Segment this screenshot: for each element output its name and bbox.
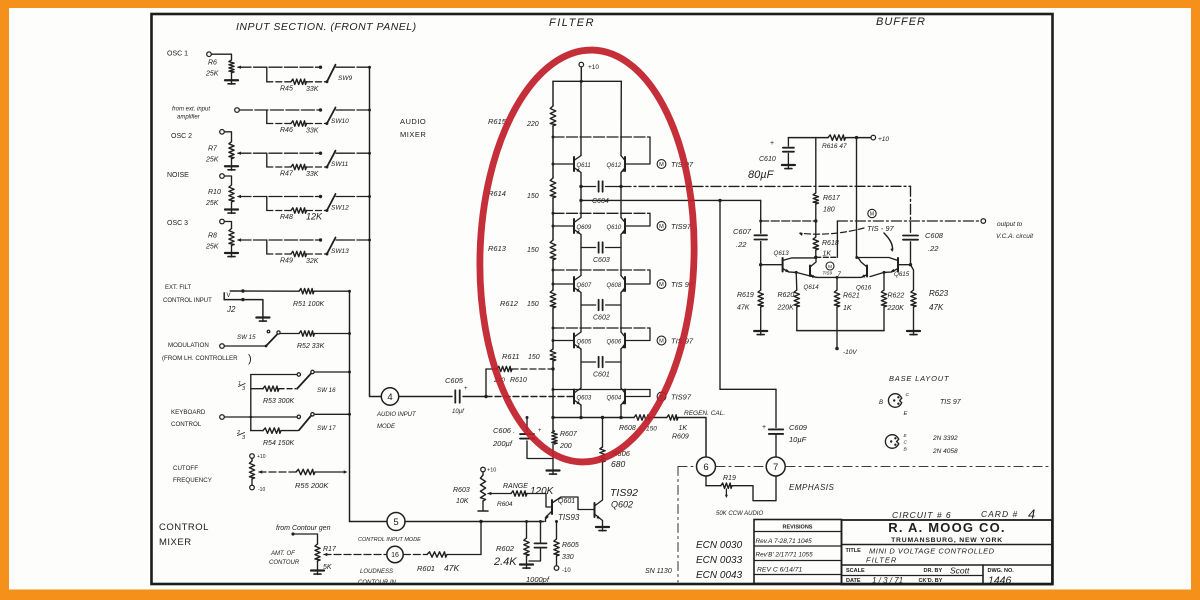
svg-text:DWG. NO.: DWG. NO. — [988, 568, 1015, 574]
svg-text:R623: R623 — [929, 289, 949, 298]
svg-text:R614: R614 — [488, 189, 506, 198]
node 6 — [697, 457, 716, 476]
schematic frame border — [152, 14, 1053, 584]
pot wiper arrow — [259, 470, 263, 473]
ground — [520, 563, 533, 565]
pot wiper arrow R17 — [324, 553, 328, 556]
svg-text:R605: R605 — [562, 542, 579, 549]
svg-text:10µf: 10µf — [452, 409, 465, 415]
svg-text:-10: -10 — [258, 487, 265, 493]
svg-text:+10: +10 — [257, 454, 266, 460]
svg-text:R17: R17 — [323, 546, 337, 553]
wire +10 to top rail — [580, 67, 582, 81]
svg-text:CK'D. BY: CK'D. BY — [919, 578, 943, 584]
wire ladder right column stage 2-3 — [620, 235, 622, 276]
svg-text:OSC 3: OSC 3 — [167, 220, 188, 227]
wire ladder right column stage 3-4 — [620, 293, 622, 333]
svg-text:EMPHASIS: EMPHASIS — [789, 483, 835, 492]
base tap wire stage 4 — [553, 327, 650, 329]
svg-text:R616 47: R616 47 — [822, 143, 847, 150]
svg-text:CIRCUIT # 6: CIRCUIT # 6 — [892, 510, 952, 520]
svg-text:MIXER: MIXER — [159, 537, 192, 548]
wire ladder left column stage 2-3 — [580, 235, 582, 276]
resistor R623 47K — [911, 265, 914, 290]
svg-text:R621: R621 — [843, 293, 860, 300]
svg-text:.22: .22 — [928, 244, 939, 253]
Q616 emitter to joint emitter line — [860, 275, 867, 278]
resistor R49 32K — [267, 253, 291, 255]
wire ladder output A to buffer — [621, 185, 911, 187]
wire control bus — [349, 291, 351, 521]
resistor R51 100K — [299, 289, 314, 294]
wire keyboard input — [224, 416, 297, 418]
svg-text:1000pf: 1000pf — [526, 575, 550, 584]
terminal +10 ladder top — [579, 62, 584, 67]
svg-text:.22: .22 — [736, 240, 747, 249]
svg-text:R617: R617 — [823, 195, 841, 202]
base wire left stage 2 — [553, 225, 574, 227]
ground — [256, 316, 269, 318]
transistor Q613 — [782, 258, 784, 272]
resistor R47 33K — [267, 166, 291, 168]
svg-text:M: M — [659, 162, 664, 168]
svg-text:R51 100K: R51 100K — [293, 301, 324, 308]
svg-text:R607: R607 — [560, 431, 578, 438]
svg-text:50K CCW AUDIO: 50K CCW AUDIO — [716, 511, 763, 517]
wire R604 to Q601 base — [527, 494, 552, 508]
resistor R55 200K — [296, 469, 315, 474]
input terminal NOISE — [220, 174, 225, 179]
svg-text:150: 150 — [527, 193, 539, 200]
svg-text:R45: R45 — [280, 85, 293, 92]
svg-text:R610: R610 — [510, 377, 527, 384]
transistor Q606 — [624, 334, 626, 348]
svg-text:C610: C610 — [759, 156, 776, 163]
resistor R616 47 — [828, 135, 846, 140]
wire audio bus — [369, 67, 371, 394]
wire jack sleeve to ground — [224, 300, 263, 317]
input terminal OSC 3 — [220, 219, 225, 224]
input terminal OSC 1 — [207, 52, 212, 57]
resistor R615 220 — [550, 106, 556, 126]
svg-text:R620: R620 — [778, 292, 795, 299]
svg-text:Q602: Q602 — [611, 500, 633, 510]
svg-text:R602: R602 — [496, 544, 515, 553]
wire terminal to pot — [211, 54, 231, 60]
svg-text:C: C — [904, 440, 908, 446]
pot R603 wiper arrow — [488, 492, 492, 495]
svg-text:+: + — [762, 424, 766, 431]
svg-text:BASE LAYOUT: BASE LAYOUT — [889, 374, 950, 383]
wire SW17 to control bus — [314, 413, 349, 415]
svg-text:C608: C608 — [925, 231, 944, 240]
chain wire — [552, 198, 554, 240]
revisions line — [754, 545, 842, 547]
wire wiper to switch contact — [238, 239, 321, 241]
svg-text:C603: C603 — [593, 257, 610, 264]
Q602 collector wire — [595, 462, 603, 506]
svg-text:-10V: -10V — [843, 349, 857, 356]
svg-text:OSC 1: OSC 1 — [167, 51, 188, 58]
Q601 emitter — [546, 511, 553, 522]
capacitor 1000pf — [540, 522, 542, 543]
wire switch to audio bus — [342, 196, 369, 198]
svg-text:TIS97: TIS97 — [671, 222, 692, 231]
chain wire — [552, 126, 554, 178]
svg-text:INPUT SECTION. (FRONT PANEL: INPUT SECTION. (FRONT PANEL) — [236, 21, 417, 33]
svg-text:B: B — [879, 400, 883, 406]
base wire left stage 3 — [553, 283, 574, 285]
crease dash-dot line horizontal — [678, 466, 696, 468]
svg-text:180: 180 — [823, 207, 835, 214]
label circled M TIS97 buffer — [826, 262, 834, 270]
svg-text:R10: R10 — [208, 189, 221, 196]
svg-text:CONTROL: CONTROL — [159, 522, 209, 533]
wire input to Q603 base — [486, 396, 574, 398]
wire to SW15 — [224, 345, 265, 347]
revisions box — [754, 520, 842, 584]
wire node4 to C605 — [399, 396, 452, 398]
ground — [311, 569, 324, 571]
resistor R611 150 — [550, 349, 556, 361]
svg-text:Q613: Q613 — [774, 250, 790, 257]
wire terminal to pot — [224, 132, 231, 142]
terminal output — [981, 219, 986, 224]
svg-text:CONTROL INPUT MODE: CONTROL INPUT MODE — [358, 537, 421, 543]
svg-text:R. A. MOOG CO.: R. A. MOOG CO. — [888, 520, 1005, 535]
base tap wire stage 2 — [553, 212, 650, 214]
svg-text:SW10: SW10 — [331, 118, 349, 125]
svg-text:R611: R611 — [502, 352, 519, 361]
capacitor C605 10uf — [454, 390, 456, 402]
resistor R608 150 — [634, 415, 650, 420]
wire R601 to control line — [447, 554, 481, 556]
resistor R619 47K — [760, 265, 762, 290]
input terminal keyboard control — [220, 415, 225, 420]
resistor R52 33K — [280, 333, 299, 335]
svg-text:DR. BY: DR. BY — [924, 568, 943, 574]
wire R606 to ladder emitter rail — [602, 418, 604, 448]
svg-text:FILTER: FILTER — [549, 17, 595, 29]
potentiometer R17 5K — [315, 544, 320, 561]
svg-text:R48: R48 — [280, 214, 293, 221]
wire emitter rail — [553, 417, 634, 419]
transistor Q608 — [624, 277, 626, 291]
svg-text:RANGE: RANGE — [503, 483, 528, 490]
svg-text:+10: +10 — [878, 136, 889, 143]
svg-text:E: E — [904, 411, 908, 417]
ground R623 — [907, 330, 920, 332]
svg-text:Q601: Q601 — [558, 498, 575, 505]
svg-text:TITLE: TITLE — [846, 548, 862, 554]
svg-text:Q612: Q612 — [607, 163, 622, 169]
svg-text:M: M — [659, 282, 664, 288]
svg-text:LOUDNESS: LOUDNESS — [360, 569, 393, 575]
wire terminal to pot — [224, 222, 231, 229]
wire to ground — [552, 444, 554, 470]
chain wire — [552, 260, 554, 290]
svg-text:MINI D VOLTAGE CONTROLLED: MINI D VOLTAGE CONTROLLED — [869, 547, 995, 556]
svg-text:1 / 3 / 71: 1 / 3 / 71 — [872, 576, 903, 585]
wire ladder right column stage 1-2 — [620, 173, 622, 218]
svg-text:Q614: Q614 — [804, 284, 820, 291]
svg-text:TRUMANSBURG, NEW YORK: TRUMANSBURG, NEW YORK — [891, 537, 1003, 544]
wire branch down — [266, 197, 268, 211]
node 5 control input mode — [387, 513, 405, 531]
svg-text:M: M — [659, 339, 664, 345]
svg-text:4: 4 — [387, 392, 392, 403]
svg-text:NOISE: NOISE — [167, 172, 189, 179]
transistor Q615 — [897, 258, 899, 272]
svg-text:AMT. OF: AMT. OF — [270, 551, 295, 557]
resistor R609 1K — [667, 415, 678, 420]
svg-text:R53 300K: R53 300K — [263, 398, 294, 405]
potentiometer R6 25K — [229, 60, 234, 73]
svg-text:ECN 0030: ECN 0030 — [696, 540, 743, 551]
svg-text:220K: 220K — [777, 305, 795, 312]
resistor R604 RANGE 120K — [511, 491, 527, 496]
switch SW12 — [327, 194, 336, 211]
svg-text:MIXER: MIXER — [400, 130, 426, 139]
node 16 loudness contour in — [387, 546, 403, 562]
wire contour to R17 — [291, 532, 294, 535]
svg-text:Q605: Q605 — [577, 340, 592, 346]
svg-text:1K: 1K — [843, 305, 852, 312]
transistor Q603 — [573, 390, 575, 404]
svg-text:R609: R609 — [672, 434, 689, 441]
svg-text:680: 680 — [611, 459, 625, 469]
red highlight ellipse — [474, 47, 699, 465]
transistor Q610 — [624, 219, 626, 233]
capacitor C609 10uF — [769, 428, 783, 430]
switch SW16 — [297, 373, 300, 376]
wire terminal to pot — [224, 176, 231, 185]
svg-text:80µF: 80µF — [748, 169, 775, 181]
wire C605 to ladder input — [463, 396, 486, 398]
transistor Q611 — [573, 157, 575, 171]
wire ladder right column stage 4-5 — [620, 349, 622, 388]
transistor Q614 — [809, 266, 811, 277]
wire wiper to node 16 — [324, 554, 387, 556]
base wire left stage 1 — [553, 163, 574, 165]
wire wiper to R604 — [488, 493, 511, 495]
svg-text:R47: R47 — [280, 171, 294, 178]
wire output line to VCA — [761, 220, 816, 222]
node 7 — [766, 457, 785, 476]
svg-text:C601: C601 — [593, 372, 610, 379]
wire branch down — [266, 67, 268, 82]
pot R55 terminal +10 — [250, 454, 255, 459]
svg-text:47K: 47K — [737, 305, 750, 312]
capacitor C610 80uF — [787, 138, 789, 146]
svg-text:C: C — [906, 392, 910, 398]
capacitor C601 — [581, 361, 596, 363]
switch SW13 — [327, 238, 336, 255]
svg-text:33K: 33K — [306, 86, 319, 93]
svg-text:SW12: SW12 — [331, 205, 349, 212]
svg-text:R6: R6 — [208, 60, 217, 67]
svg-text:Q604: Q604 — [607, 396, 622, 402]
pot wiper arrow — [237, 195, 241, 198]
resistor R53 300K — [251, 388, 263, 390]
svg-text:AUDIO INPUT: AUDIO INPUT — [376, 412, 417, 418]
input terminal modulation — [220, 344, 225, 349]
title block box — [842, 520, 1053, 585]
emphasis pot R19 50K — [705, 476, 707, 486]
wire — [650, 417, 667, 419]
revisions line — [754, 531, 842, 533]
resistor R618 1K — [813, 237, 818, 250]
potentiometer R10 25K — [229, 185, 234, 202]
Q612 collector wire to top rail — [620, 81, 622, 155]
svg-text:Q615: Q615 — [894, 271, 910, 278]
wire R617 to output junction — [815, 204, 817, 237]
wire joint emitters — [817, 276, 860, 278]
svg-text:ECN 0043: ECN 0043 — [696, 570, 743, 581]
chain wire to emitter rail and R607 — [552, 361, 554, 431]
svg-text:BUFFER: BUFFER — [876, 16, 926, 28]
svg-text:TIS9: TIS9 — [823, 271, 833, 276]
transistor Q612 — [624, 157, 626, 171]
input terminal OSC 2 — [220, 130, 225, 135]
wire buffer +10 rail — [788, 137, 828, 139]
wire C607 to Q613 base — [761, 264, 783, 266]
svg-text:EXT. FILT: EXT. FILT — [165, 285, 192, 291]
wire jack tip to R51 — [230, 290, 299, 292]
svg-text:C609: C609 — [789, 423, 808, 432]
svg-text:FILTER: FILTER — [866, 556, 897, 565]
svg-text:DATE: DATE — [846, 578, 861, 584]
Q601 collector wire to Q602 base — [552, 497, 595, 510]
svg-text:-10: -10 — [562, 568, 571, 574]
pot wiper arrow — [237, 66, 241, 69]
wire rail to +10 terminal — [846, 137, 872, 139]
switch SW17 — [297, 415, 300, 418]
svg-text:2N 4058: 2N 4058 — [932, 448, 958, 455]
wire C608 to Q615 base — [898, 264, 911, 266]
terminal +10 buffer — [871, 135, 876, 140]
svg-text:R613: R613 — [488, 244, 507, 253]
resistor R614 150 — [550, 178, 556, 198]
pot wiper arrow — [237, 238, 241, 241]
label TIS-97 with arrows — [868, 209, 876, 217]
svg-text:TIS92: TIS92 — [610, 487, 638, 499]
capacitor C606 200uf — [526, 418, 528, 432]
svg-text:(FROM LH. CONTROLLER: (FROM LH. CONTROLLER — [162, 355, 238, 362]
pot R19 wiper arrow — [725, 489, 727, 496]
wire ladder output B to buffer — [581, 199, 761, 201]
ground ladder — [547, 469, 560, 471]
svg-text:CONTROL INPUT: CONTROL INPUT — [163, 298, 212, 304]
svg-text:330: 330 — [562, 554, 574, 561]
Q611 collector wire to top rail — [580, 81, 582, 155]
svg-text:R603: R603 — [453, 487, 470, 494]
svg-text:150: 150 — [527, 301, 539, 308]
Q614 emitter to joint emitter line — [813, 276, 817, 279]
svg-text:TIS 97: TIS 97 — [940, 399, 962, 406]
label circled M TIS 97 — [657, 160, 666, 169]
svg-text:25K: 25K — [205, 244, 219, 251]
svg-text:REV C 6/14/71: REV C 6/14/71 — [757, 567, 803, 574]
resistor R602 2.4K — [526, 522, 528, 539]
switch SW10 — [327, 108, 336, 124]
wire node5 to Q601 emitter line — [405, 521, 544, 523]
svg-text:SW 17: SW 17 — [317, 425, 336, 432]
input terminal from ext input amplifier — [235, 108, 240, 113]
wire ladder left column stage 1-2 — [580, 173, 582, 218]
jack J2 — [223, 293, 225, 300]
title block divider — [982, 565, 984, 585]
transistor case TIS97 — [888, 394, 902, 408]
wire output down to collectors — [836, 221, 838, 257]
wire wiper to R55 — [259, 471, 296, 473]
resistor R610 270 — [486, 368, 497, 370]
wire switch to audio bus — [342, 152, 369, 154]
svg-text:KEYBOARD: KEYBOARD — [171, 409, 206, 416]
resistor R48 12K — [267, 210, 291, 212]
svg-text:R54 150K: R54 150K — [263, 440, 294, 447]
terminal -10V — [836, 331, 838, 347]
svg-text:SW13: SW13 — [331, 248, 349, 255]
resistor R605 330 — [556, 522, 558, 540]
svg-text:200: 200 — [559, 443, 572, 450]
wire C609 to node 7 — [775, 434, 777, 457]
svg-text:47K: 47K — [444, 563, 459, 573]
svg-text:R52 33K: R52 33K — [297, 343, 325, 350]
ground — [231, 202, 233, 209]
wire R609 to node 6 — [678, 418, 706, 458]
wire branch down — [266, 240, 268, 254]
svg-text:220K: 220K — [887, 305, 905, 312]
svg-text:220: 220 — [526, 121, 539, 128]
svg-text:C602: C602 — [593, 315, 610, 322]
svg-text:REGEN. CAL.: REGEN. CAL. — [684, 410, 725, 417]
resistor R622 220K — [883, 272, 885, 290]
base tap wire stage 1 — [553, 136, 650, 138]
capacitor C604 — [581, 186, 596, 188]
wire wiper to switch contact — [239, 109, 320, 111]
svg-text:SCALE: SCALE — [846, 568, 865, 574]
wire wiper to switch contact — [238, 152, 321, 154]
svg-text:Scott: Scott — [950, 566, 970, 576]
svg-text:from ext. input: from ext. input — [172, 107, 210, 113]
svg-text:M: M — [659, 224, 664, 230]
svg-text:TIS93: TIS93 — [558, 513, 580, 522]
svg-text:5: 5 — [393, 517, 398, 528]
svg-text:2N 3392: 2N 3392 — [932, 435, 958, 442]
svg-text:R49: R49 — [280, 258, 293, 265]
svg-text:AUDIO: AUDIO — [400, 117, 426, 126]
svg-text:R19: R19 — [723, 475, 736, 482]
wire R19 to node 7 return — [753, 476, 776, 501]
svg-text:SW 15: SW 15 — [237, 334, 256, 341]
chain wire — [552, 308, 554, 349]
svg-text:SW11: SW11 — [331, 161, 349, 168]
title block line — [842, 575, 984, 577]
base tap wire stage 5 — [553, 389, 650, 391]
resistor R617 180 — [815, 138, 817, 193]
svg-text:33K: 33K — [306, 128, 319, 135]
svg-text:CONTROL: CONTROL — [171, 421, 202, 428]
svg-text:1K: 1K — [823, 251, 832, 258]
capacitor C607 .22 — [760, 200, 762, 233]
transistor case 2N3392 2N4058 — [885, 435, 899, 449]
switch SW11 — [327, 151, 336, 167]
ground — [231, 159, 233, 166]
wire switch to audio bus — [342, 66, 369, 68]
svg-text:2.4K: 2.4K — [493, 556, 517, 568]
resistor R613 150 — [550, 240, 556, 260]
